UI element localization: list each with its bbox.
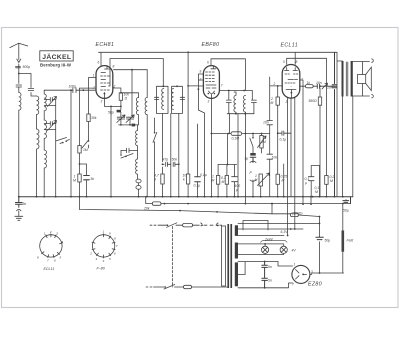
svg-text:6: 6	[114, 252, 116, 256]
svg-text:8: 8	[113, 65, 115, 69]
coil L3 tuned MW	[44, 90, 46, 120]
resistor 4,7k	[161, 174, 164, 184]
socket EBF80	[89, 230, 118, 264]
svg-text:µ: µ	[305, 181, 307, 185]
svg-text:1: 1	[93, 74, 95, 78]
svg-text:8: 8	[296, 60, 298, 64]
op line B+ top rail	[99, 51, 338, 53]
svg-text:9: 9	[200, 70, 202, 74]
brand box JÄCKEL	[40, 51, 73, 61]
svg-text:50n: 50n	[172, 158, 178, 162]
capacitor 100p series	[73, 88, 76, 93]
svg-text:4: 4	[103, 259, 105, 263]
svg-text:6: 6	[54, 259, 56, 263]
svg-text:1: 1	[294, 263, 296, 267]
voltage selector box	[243, 221, 268, 231]
svg-text:2: 2	[89, 252, 92, 256]
wire primary leads	[337, 52, 353, 196]
IF2 bottom bar	[227, 113, 254, 115]
resistor 1M upper	[78, 146, 81, 154]
capacitor 5n left	[84, 176, 90, 180]
svg-text:7: 7	[292, 283, 294, 287]
oval caps on osc column	[136, 179, 141, 183]
capacitor 0,1u cathode feedback	[278, 131, 291, 135]
wire pin7 to AVC column	[80, 87, 97, 89]
svg-text:7: 7	[47, 259, 49, 263]
coil antenna primary L1	[19, 93, 21, 197]
padder cap solid	[132, 124, 136, 127]
svg-text:Feld: Feld	[347, 239, 354, 243]
B+ distribution line	[80, 197, 273, 214]
lamp La2	[280, 246, 287, 253]
band switch S1	[56, 138, 70, 144]
wire cathode bottom	[104, 98, 121, 109]
wire EZ80 cathode to field coil	[310, 273, 344, 274]
grid stubs EBF80	[198, 74, 203, 110]
wire AVC center drop	[227, 134, 229, 165]
pin labels EBF80	[199, 61, 223, 104]
svg-text:M: M	[222, 180, 225, 184]
svg-text:3: 3	[101, 100, 103, 104]
wire antenna lead	[16, 64, 21, 84]
EBF80 internals	[206, 66, 217, 99]
svg-text:4V: 4V	[292, 249, 297, 253]
svg-text:500p: 500p	[23, 65, 31, 69]
cathode resistor 560	[319, 88, 321, 197]
svg-text:50µ: 50µ	[325, 239, 331, 243]
lamp La1	[262, 246, 269, 253]
svg-text:EZ80: EZ80	[308, 282, 322, 288]
svg-text:7: 7	[221, 84, 223, 88]
tube ECL11 envelope	[282, 65, 300, 99]
coil L4 tuned LW	[44, 120, 46, 197]
svg-text:5: 5	[283, 60, 285, 64]
potentiometer 1M tone	[261, 134, 263, 154]
svg-text:M: M	[212, 179, 215, 183]
svg-text:10n: 10n	[263, 121, 269, 125]
earth ground	[15, 216, 23, 220]
wire grid line y90	[44, 89, 96, 91]
svg-text:0,1µ: 0,1µ	[280, 138, 287, 142]
capacitor 10n upper	[267, 121, 273, 125]
svg-text:100p: 100p	[69, 85, 77, 89]
capacitor antenna series	[16, 85, 22, 93]
pin 8 lead	[114, 69, 148, 71]
ground bus	[19, 196, 353, 198]
jack curl	[17, 209, 21, 216]
svg-text:8: 8	[114, 237, 116, 241]
coil IF2a	[234, 92, 236, 114]
volume pot 1M	[258, 173, 270, 197]
IF transformer 2 left cap	[226, 91, 231, 114]
coil IF1a	[162, 89, 164, 110]
capacitor 0,1u bottom left leg	[308, 166, 319, 197]
resistor 0,25M	[277, 86, 279, 197]
svg-text:EBF80: EBF80	[202, 42, 220, 48]
svg-text:560Ω: 560Ω	[309, 99, 318, 103]
speaker terminals	[372, 59, 374, 98]
oscillator trimmer 2	[126, 70, 134, 125]
electrolytic 50u second	[316, 237, 323, 240]
tube EBF80 envelope	[203, 66, 219, 99]
lamp wires	[238, 244, 284, 255]
svg-text:47p: 47p	[163, 158, 169, 162]
ECH81 internals	[101, 66, 111, 99]
mechanical link dashed	[172, 227, 174, 288]
capacitor coupling 31x	[28, 89, 34, 91]
wire pin7 EBF80 to IF2	[219, 90, 252, 92]
line bypass caps 5n	[262, 262, 268, 288]
IF transformer 1 left group	[157, 86, 169, 113]
resistor 0,1M avc	[226, 165, 228, 197]
svg-text:M: M	[330, 179, 333, 183]
svg-text:5n: 5n	[23, 202, 27, 206]
wire trimmer column	[55, 100, 57, 197]
bus junction dots	[18, 196, 344, 205]
wire gridline x188	[188, 52, 198, 174]
AVC line 20k	[146, 197, 351, 204]
node A	[18, 73, 20, 75]
output transformer primary bar	[342, 61, 344, 97]
svg-text:2: 2	[49, 230, 52, 234]
svg-text:ECL11: ECL11	[44, 267, 55, 271]
oscillator trimmer 1	[117, 115, 125, 125]
transformer primary winding	[222, 226, 226, 286]
IF1 right group	[172, 86, 183, 113]
bracket 2x4V	[261, 241, 288, 243]
resistor 1M lower	[78, 174, 81, 182]
svg-text:9: 9	[109, 232, 111, 236]
svg-text:M: M	[73, 179, 76, 183]
output transformer core lines	[346, 62, 348, 96]
pin 2 lead to 100ohm	[113, 88, 121, 93]
svg-text:6: 6	[207, 61, 209, 65]
svg-text:5: 5	[60, 256, 62, 260]
wire x319.5 long	[319, 166, 321, 197]
coil osc grid winding	[136, 98, 138, 125]
capacitor padder series	[121, 148, 138, 152]
svg-text:6,3V: 6,3V	[281, 230, 289, 234]
HV secondary leads	[238, 262, 293, 288]
coil L2b	[37, 129, 40, 197]
secondary winding bars	[235, 225, 238, 236]
svg-text:8: 8	[37, 256, 39, 260]
svg-text:5n: 5n	[91, 177, 95, 181]
wire x319.5 B+2	[319, 217, 321, 274]
svg-text:3: 3	[208, 100, 210, 104]
coil IF2b	[244, 95, 246, 113]
trimmer capacitor MW	[44, 97, 56, 107]
capacitor 100p avc	[232, 165, 238, 197]
switch TA	[250, 134, 253, 154]
resistor 10k	[187, 184, 189, 197]
node x79.5	[79, 163, 81, 165]
180 ohm line	[272, 204, 320, 217]
capacitor IF1a	[154, 97, 158, 99]
switch osc	[82, 140, 89, 148]
svg-text:ECH81: ECH81	[96, 42, 115, 48]
audio chain 1k 10n arrow	[300, 85, 335, 87]
chassis 5n capacitor	[15, 197, 22, 208]
wire osc grid column x88.5	[89, 78, 97, 141]
pin 6 lead EBF80	[211, 59, 245, 91]
mains lead lower	[146, 285, 227, 290]
svg-text:k: k	[183, 178, 185, 182]
heater feed line	[238, 223, 320, 225]
svg-text:7: 7	[93, 86, 95, 90]
wire column x269.7 10n caps	[269, 77, 271, 197]
svg-text:Ω: Ω	[125, 97, 128, 101]
capacitor 50p	[117, 110, 121, 113]
svg-text:7: 7	[116, 244, 118, 248]
svg-text:ECL11: ECL11	[281, 43, 298, 49]
detector line y133.5	[211, 133, 269, 135]
speaker voice coil wires	[353, 62, 370, 97]
wire column x197.5 cap 0,1u	[197, 124, 199, 197]
wire IF1 to ECH81 plate	[110, 59, 163, 87]
trimmer capacitor LW	[44, 121, 56, 131]
ECL11 heater drops	[288, 98, 295, 235]
antenna	[10, 43, 28, 62]
svg-text:6: 6	[98, 61, 100, 65]
coil IF1b	[172, 89, 174, 110]
pin 6 lead	[100, 52, 102, 65]
svg-text:2: 2	[199, 78, 202, 82]
svg-text:5n: 5n	[268, 265, 272, 269]
svg-text:JÄCKEL: JÄCKEL	[42, 53, 71, 61]
resistor 1M avc	[217, 165, 219, 197]
wire IF1 drops	[163, 114, 179, 197]
pin labels ECH81	[93, 61, 116, 104]
svg-text:p: p	[235, 188, 238, 192]
resistor 0,1M right	[325, 176, 328, 185]
svg-text:P: P	[250, 171, 253, 175]
capacitor IF1b	[180, 97, 184, 99]
mains lead upper	[150, 223, 199, 228]
socket ECL11	[37, 230, 64, 263]
ECL11 internals	[285, 68, 298, 99]
tube ECH81 envelope	[96, 66, 113, 99]
pin labels ECL11	[273, 60, 304, 104]
electrolytic 50u right	[343, 197, 351, 204]
pickup jack P	[250, 161, 256, 197]
svg-text:3: 3	[56, 232, 58, 236]
output transformer secondary bar	[351, 61, 353, 97]
transformer core	[227, 224, 229, 288]
heater 6,3V wires	[238, 229, 303, 236]
wire AVC column x79.5	[79, 88, 81, 197]
coil osc A	[136, 125, 138, 159]
svg-text:3: 3	[286, 100, 288, 104]
svg-text:0,1µ: 0,1µ	[194, 184, 201, 188]
wire column x283.7	[283, 164, 285, 197]
caps 47p 50n	[163, 162, 179, 166]
wire branch 5n	[80, 164, 87, 197]
capacitor 10n lower	[267, 154, 273, 159]
pin leads ECL11 top	[287, 52, 327, 64]
AVC divider bar	[218, 164, 237, 166]
svg-text:F–80: F–80	[97, 267, 105, 271]
resistor 0,1M pill	[231, 132, 242, 136]
capacitor 10n out	[332, 52, 337, 196]
capacitor 5u detector	[250, 153, 255, 156]
mains connector pair	[201, 223, 222, 226]
wire EBF80 under tube	[198, 98, 211, 196]
svg-text:5: 5	[109, 257, 111, 261]
coil osc B	[136, 159, 138, 179]
svg-text:5n: 5n	[268, 279, 272, 283]
wire pin7 right	[300, 80, 303, 197]
svg-text:M: M	[315, 190, 318, 194]
resistor 100 ohm	[119, 93, 122, 101]
padder bar	[119, 124, 139, 126]
speaker magnet and cone	[358, 75, 366, 84]
B+ node wires	[342, 204, 344, 231]
svg-text:50µ: 50µ	[343, 209, 349, 213]
field coil Feld	[342, 231, 345, 252]
svg-text:3: 3	[96, 257, 98, 261]
resistor 2M	[276, 97, 279, 105]
wire column x71	[70, 90, 72, 197]
svg-text:0,1µ: 0,1µ	[200, 173, 207, 177]
node grid junction	[82, 89, 84, 91]
svg-text:30k: 30k	[91, 116, 97, 120]
wire x303 bus to line2	[303, 197, 311, 204]
svg-text:Bernburg III-W: Bernburg III-W	[40, 62, 72, 67]
resistor 30k	[87, 114, 90, 122]
coil L2a	[37, 96, 39, 129]
svg-text:4: 4	[62, 240, 64, 244]
node IF1 tops	[162, 85, 164, 87]
wire branch to coupling cap	[19, 74, 37, 97]
IF2 right cap	[251, 91, 256, 114]
wire grid to osc coil	[121, 93, 139, 98]
wire IF2 drops	[230, 114, 246, 204]
svg-text:M: M	[271, 101, 274, 105]
svg-text:1: 1	[44, 232, 46, 236]
svg-text:2: 2	[273, 82, 276, 86]
switch x154.5	[153, 118, 157, 197]
coil osc anode x147	[145, 70, 147, 197]
rectifier EZ80	[292, 265, 310, 283]
wire x326.4 drop	[325, 58, 327, 196]
wire column x111	[110, 106, 112, 196]
switch osc band	[121, 150, 133, 158]
grid wire ECL11	[270, 85, 283, 87]
svg-text:1: 1	[103, 230, 105, 234]
svg-text:1M: 1M	[83, 148, 88, 152]
